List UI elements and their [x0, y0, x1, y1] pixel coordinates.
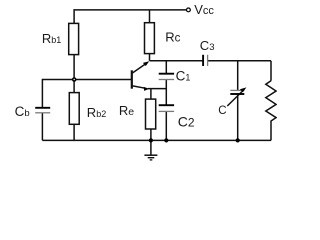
- svg-text:C3: C3: [200, 38, 215, 53]
- svg-text:Rb2: Rb2: [87, 105, 106, 120]
- svg-text:Vcc: Vcc: [194, 2, 214, 17]
- svg-text:Rb1: Rb1: [42, 31, 61, 46]
- svg-text:C2: C2: [178, 114, 195, 130]
- svg-text:Re: Re: [119, 103, 134, 118]
- svg-text:Rc: Rc: [165, 30, 180, 45]
- svg-text:Cb: Cb: [15, 104, 30, 119]
- svg-text:C1: C1: [176, 69, 191, 84]
- svg-text:C: C: [218, 105, 226, 117]
